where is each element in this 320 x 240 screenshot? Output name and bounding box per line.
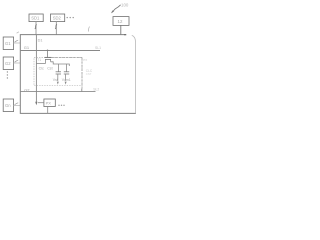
capacitor CLC	[56, 64, 61, 85]
pixel dashed box	[34, 58, 82, 86]
svg-text:Cst: Cst	[47, 67, 52, 71]
controller box	[113, 17, 129, 26]
svg-text:CST: CST	[86, 72, 92, 76]
TFT T1	[45, 50, 52, 64]
wire from controller to panel	[120, 25, 122, 34]
wire from D2 to panel	[55, 22, 57, 35]
svg-text:Vst: Vst	[53, 78, 58, 82]
leader numeral at panel top edge (x~88)	[88, 27, 89, 32]
ellipsis after data driver boxes	[67, 17, 74, 18]
gate driver box G2	[3, 57, 13, 70]
svg-text:G2: G2	[24, 88, 30, 93]
gate line GL1	[21, 45, 102, 51]
gate driver box Gn	[3, 99, 13, 112]
wire bottom box left stub	[38, 102, 44, 104]
svg-text:T1: T1	[37, 58, 41, 62]
arrow to reference numeral 100	[111, 2, 129, 13]
svg-text:G1: G1	[24, 45, 30, 50]
svg-text:SD2: SD2	[53, 16, 62, 21]
capacitor CST	[64, 64, 69, 85]
svg-text:G1: G1	[5, 41, 11, 46]
data line DL1	[35, 35, 42, 106]
data driver box D2	[51, 14, 65, 22]
svg-text:SL2: SL2	[93, 87, 99, 91]
svg-text:SD1: SD1	[31, 16, 40, 21]
pixel bottom box	[44, 99, 55, 107]
gate driver box G1	[3, 37, 13, 50]
wire gate driver Gn to panel	[14, 103, 21, 106]
display panel outline	[20, 35, 136, 114]
data driver box D1	[29, 14, 43, 22]
svg-text:Clc: Clc	[39, 67, 44, 71]
svg-text:100: 100	[121, 2, 129, 7]
wire data line to TFT source	[36, 62, 45, 64]
wire from D1 to panel	[35, 22, 37, 35]
wire bottom box to panel bottom	[47, 107, 49, 114]
svg-text:PX: PX	[83, 58, 87, 62]
panel corner numeral	[17, 32, 19, 33]
wire gate driver G2 to panel	[14, 60, 21, 63]
junction tick of dashed box edge on GL2	[81, 89, 83, 92]
svg-text:Gn: Gn	[5, 103, 11, 108]
gate line GL2	[21, 87, 100, 92]
wire gate driver G1 to panel	[14, 40, 21, 43]
ellipsis right of pixel bottom box	[58, 105, 64, 106]
svg-text:SL1: SL1	[95, 46, 101, 50]
svg-text:PX: PX	[46, 101, 52, 106]
svg-text:Vcm1: Vcm1	[62, 78, 71, 82]
svg-text:D1: D1	[38, 39, 43, 43]
wire TFT drain to capacitors	[51, 62, 70, 66]
svg-text:G2: G2	[5, 61, 11, 66]
vertical ellipsis between gate driver boxes	[7, 71, 8, 78]
svg-text:12: 12	[118, 19, 123, 24]
